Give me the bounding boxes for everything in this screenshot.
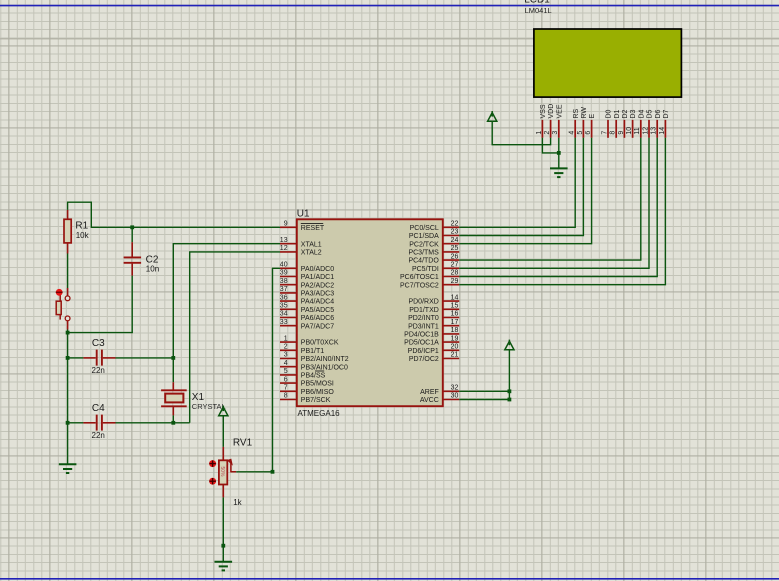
svg-text:PA3/ADC3: PA3/ADC3	[301, 291, 334, 298]
wire R1 top to RESET pin 9	[68, 202, 280, 227]
svg-text:35: 35	[280, 303, 288, 310]
svg-text:R1: R1	[75, 220, 88, 231]
microcontroller U1 ATMEGA16 body	[297, 219, 443, 406]
svg-text:50%: 50%	[219, 467, 225, 478]
LCD pin 13 stub (D6)	[656, 120, 658, 138]
LCD pin 12 stub (D5)	[648, 120, 650, 138]
svg-text:14: 14	[659, 127, 666, 135]
capacitor C2 top pin	[131, 242, 133, 256]
pin 30 stub (AVCC)	[443, 399, 459, 401]
resistor R1 body	[64, 219, 71, 243]
ground symbol below RV1	[215, 561, 233, 563]
pin 37 stub (PA3/ADC3)	[280, 292, 297, 294]
LCD pin 5 stub (RW)	[582, 120, 584, 138]
svg-text:PC7/TOSC2: PC7/TOSC2	[400, 282, 439, 289]
svg-text:38: 38	[280, 278, 288, 285]
svg-text:ATMEGA16: ATMEGA16	[298, 409, 341, 418]
svg-text:D4: D4	[638, 109, 645, 118]
pin 21 stub (PD7/OC2)	[443, 358, 459, 360]
svg-text:PA6/ADC6: PA6/ADC6	[301, 315, 334, 322]
svg-text:PC4/TDO: PC4/TDO	[408, 258, 439, 265]
svg-text:1: 1	[536, 131, 543, 135]
wire crystal top	[172, 358, 174, 382]
button top pin	[67, 288, 69, 296]
svg-text:10n: 10n	[146, 265, 159, 274]
svg-text:D2: D2	[622, 109, 629, 118]
pin 34 stub (PA6/ADC6)	[280, 317, 297, 319]
svg-text:14: 14	[451, 294, 459, 301]
svg-text:6: 6	[284, 376, 288, 383]
pin 28 stub (PC6/TOSC1)	[443, 276, 459, 278]
wire power to RV1 top	[222, 416, 224, 447]
wire VSS to ground net	[542, 138, 558, 153]
pin 35 stub (PA5/ADC5)	[280, 308, 297, 310]
svg-text:PA7/ADC7: PA7/ADC7	[301, 323, 334, 330]
button top contact circle	[65, 296, 70, 301]
svg-text:PA0/ADC0: PA0/ADC0	[301, 266, 334, 273]
svg-text:15: 15	[451, 303, 459, 310]
wire R1 bottom to button	[67, 254, 69, 289]
wire RESET net down to C2	[131, 227, 133, 242]
svg-text:29: 29	[451, 278, 459, 285]
svg-text:PB2/AIN0/INT2: PB2/AIN0/INT2	[301, 356, 349, 363]
svg-text:33: 33	[280, 319, 288, 326]
pin 9 stub (RESET)	[280, 226, 297, 228]
svg-text:16: 16	[451, 311, 459, 318]
pin 5 stub (PB4/SS)	[280, 374, 297, 376]
svg-text:C3: C3	[92, 338, 105, 349]
svg-text:25: 25	[451, 245, 459, 252]
svg-text:17: 17	[451, 319, 459, 326]
svg-text:11: 11	[634, 127, 641, 134]
pin 3 stub (PB2/AIN0/INT2)	[280, 358, 297, 360]
LCD pin 7 stub (D0)	[607, 120, 609, 138]
node junction C4 left	[66, 421, 70, 425]
svg-text:40: 40	[280, 262, 288, 269]
pin 16 stub (PD2/INT0)	[443, 317, 459, 319]
svg-text:PA4/ADC4: PA4/ADC4	[301, 299, 334, 306]
ground symbol left	[59, 463, 77, 465]
svg-text:24: 24	[451, 237, 459, 244]
svg-text:D5: D5	[647, 109, 654, 118]
pin 24 stub (PC2/TCK)	[443, 243, 459, 245]
svg-text:26: 26	[451, 253, 459, 260]
wire VDD to power	[492, 121, 550, 145]
svg-text:20: 20	[451, 344, 459, 351]
svg-text:12: 12	[280, 245, 288, 252]
pin 32 stub (AREF)	[443, 390, 459, 392]
power symbol VDD	[488, 113, 497, 122]
pin 7 stub (PB6/MISO)	[280, 390, 297, 392]
svg-text:PD2/INT0: PD2/INT0	[408, 315, 439, 322]
pin 2 stub (PB1/T1)	[280, 349, 297, 351]
svg-text:VSS: VSS	[540, 104, 547, 118]
svg-text:13: 13	[280, 237, 288, 244]
RV1 wiper arrow	[228, 459, 233, 464]
crystal X1 top pin	[172, 382, 174, 390]
LCD pin 8 stub (D1)	[615, 120, 617, 138]
svg-text:PD1/TXD: PD1/TXD	[409, 307, 439, 314]
pin 13 stub (XTAL1)	[280, 243, 297, 245]
wire C3 right to crystal top node	[116, 357, 174, 359]
pin 18 stub (PD4/OC1B)	[443, 333, 459, 335]
node junction at button bottom	[66, 331, 70, 335]
svg-text:D7: D7	[663, 109, 670, 118]
wire C4 left	[68, 422, 84, 424]
RV1 red adjust dot upper	[209, 460, 216, 467]
svg-text:U1: U1	[297, 209, 310, 220]
wire C2 bottom down	[131, 276, 133, 333]
LCD pin 2 stub (VDD)	[550, 120, 552, 138]
svg-text:AREF: AREF	[420, 389, 439, 396]
svg-text:PB0/T0XCK: PB0/T0XCK	[301, 340, 339, 347]
svg-text:2: 2	[544, 131, 551, 135]
wire RV1 wiper to PA0	[236, 471, 272, 473]
svg-text:CRYSTAL: CRYSTAL	[192, 402, 226, 411]
pin 27 stub (PC5/TDI)	[443, 267, 459, 269]
wire C3 left	[68, 357, 84, 359]
LCD pin 3 stub (VEE)	[558, 120, 560, 138]
svg-text:13: 13	[651, 127, 658, 135]
power symbol above RV1	[219, 407, 228, 416]
capacitor C3 left pin	[83, 357, 95, 359]
node junction crystal top	[171, 356, 175, 360]
pin 29 stub (PC7/TOSC2)	[443, 284, 459, 286]
svg-text:7: 7	[601, 131, 608, 135]
button bottom pin	[67, 321, 69, 330]
wire LCD RW to PC1/SDA pin 23	[459, 138, 583, 236]
svg-text:4: 4	[284, 360, 288, 367]
svg-text:PC6/TOSC1: PC6/TOSC1	[400, 274, 439, 281]
svg-text:PD4/OC1B: PD4/OC1B	[404, 332, 439, 339]
pin 22 stub (PC0/SCL)	[443, 226, 459, 228]
wire wiper vertical up to pin 40	[273, 268, 281, 472]
sheet border top blue line	[0, 5, 779, 7]
wire LCD D6 to PC6/TOSC1 pin 28	[459, 138, 657, 277]
pin 26 stub (PC4/TDO)	[443, 259, 459, 261]
svg-text:23: 23	[451, 229, 459, 236]
svg-text:18: 18	[451, 327, 459, 334]
svg-text:PB6/MISO: PB6/MISO	[301, 389, 335, 396]
pin 19 stub (PD5/OC1A)	[443, 341, 459, 343]
pin 40 stub (PA0/ADC0)	[280, 267, 297, 269]
pin 12 stub (XTAL2)	[280, 251, 297, 253]
svg-text:1k: 1k	[233, 498, 242, 507]
svg-text:PA5/ADC5: PA5/ADC5	[301, 307, 334, 314]
svg-text:30: 30	[451, 393, 459, 400]
svg-text:D0: D0	[606, 109, 613, 118]
pin 38 stub (PA2/ADC2)	[280, 284, 297, 286]
svg-text:PD3/INT1: PD3/INT1	[408, 323, 439, 330]
svg-text:PD0/RXD: PD0/RXD	[408, 299, 438, 306]
svg-text:E: E	[589, 114, 596, 119]
svg-text:32: 32	[451, 385, 459, 392]
svg-text:9: 9	[618, 131, 625, 135]
wire power rail vertical	[508, 350, 510, 400]
pin 23 stub (PC1/SDA)	[443, 235, 459, 237]
node junction AVCC	[508, 398, 512, 402]
svg-text:36: 36	[280, 294, 288, 301]
crystal X1 body	[165, 394, 183, 403]
svg-text:27: 27	[451, 262, 459, 269]
node junction AREF	[508, 389, 512, 393]
svg-text:4: 4	[569, 131, 576, 135]
svg-text:PD7/OC2: PD7/OC2	[409, 356, 439, 363]
svg-text:9: 9	[284, 221, 288, 228]
svg-text:D3: D3	[630, 109, 637, 118]
svg-text:PB7/SCK: PB7/SCK	[301, 397, 331, 404]
svg-text:LM041L: LM041L	[525, 6, 552, 15]
crystal X1 bottom plate	[161, 405, 187, 407]
svg-text:RV1: RV1	[233, 437, 253, 448]
svg-text:PC3/TMS: PC3/TMS	[408, 250, 439, 257]
svg-text:PD6/ICP1: PD6/ICP1	[408, 348, 439, 355]
potentiometer RV1 body	[219, 460, 227, 484]
pin 15 stub (PD1/TXD)	[443, 308, 459, 310]
wire LCD D4 to PC4/TDO pin 26	[459, 138, 641, 260]
svg-text:6: 6	[585, 131, 592, 135]
svg-text:LCD1: LCD1	[524, 0, 550, 6]
svg-text:PA1/ADC1: PA1/ADC1	[301, 274, 334, 281]
svg-text:PB1/T1: PB1/T1	[301, 348, 324, 355]
LCD pin 9 stub (D2)	[623, 120, 625, 138]
svg-text:12: 12	[642, 127, 649, 135]
svg-text:5: 5	[577, 131, 584, 135]
svg-text:PC1/SDA: PC1/SDA	[409, 233, 439, 240]
svg-text:PC2/TCK: PC2/TCK	[409, 241, 439, 248]
RV1 top pin	[222, 447, 224, 460]
svg-text:7: 7	[284, 385, 288, 392]
wire C4 right to XTAL2 vertical	[116, 422, 190, 424]
capacitor C3 right pin	[103, 357, 116, 359]
node junction crystal bottom	[171, 421, 175, 425]
svg-text:39: 39	[280, 270, 288, 277]
svg-text:PC5/TDI: PC5/TDI	[412, 266, 439, 273]
sheet border bottom blue line	[0, 578, 779, 580]
svg-text:1: 1	[284, 335, 288, 342]
capacitor C2 bottom pin	[131, 264, 133, 276]
pin 33 stub (PA7/ADC7)	[280, 325, 297, 327]
LCD pin 14 stub (D7)	[664, 120, 666, 138]
R1 bottom pin	[67, 243, 69, 254]
capacitor C4 left pin	[83, 422, 95, 424]
svg-text:RW: RW	[581, 107, 588, 119]
svg-text:22: 22	[451, 221, 459, 228]
svg-text:PC0/SCL: PC0/SCL	[410, 225, 439, 232]
node junction wiper	[271, 470, 275, 474]
capacitor C4 right pin	[103, 422, 116, 424]
svg-text:10: 10	[626, 127, 633, 135]
svg-text:VEE: VEE	[556, 104, 563, 118]
wire button bottom to junction	[67, 330, 69, 333]
svg-text:28: 28	[451, 270, 459, 277]
svg-text:PA2/ADC2: PA2/ADC2	[301, 282, 334, 289]
RV1 red adjust dot lower	[209, 478, 216, 485]
node junction C3 left	[66, 356, 70, 360]
LCD pin 6 stub (E)	[591, 120, 593, 138]
svg-text:34: 34	[280, 311, 288, 318]
pin 4 stub (PB3/AIN1/OC0)	[280, 366, 297, 368]
pin 8 stub (PB7/SCK)	[280, 399, 297, 401]
pin 36 stub (PA4/ADC4)	[280, 300, 297, 302]
wire VEE down to ground	[558, 138, 560, 169]
pin 17 stub (PD3/INT1)	[443, 325, 459, 327]
crystal X1 top plate	[161, 389, 187, 391]
capacitor C2 plates	[124, 256, 142, 258]
wire LCD D7 to PC7/TOSC2 pin 29	[459, 138, 665, 285]
pin 6 stub (PB5/MOSI)	[280, 382, 297, 384]
svg-text:10k: 10k	[76, 231, 90, 240]
wire RV1 bottom to ground	[222, 497, 224, 561]
capacitor C3 plates	[96, 350, 98, 366]
pin 1 stub (PB0/T0XCK)	[280, 341, 297, 343]
button cap rectangle	[56, 301, 61, 314]
crystal X1 bottom pin	[172, 406, 174, 415]
node junction reset/C2	[130, 225, 134, 229]
svg-text:22n: 22n	[92, 431, 105, 440]
pin 20 stub (PD6/ICP1)	[443, 349, 459, 351]
wire LCD RS to PC0/SCL pin 22	[459, 138, 575, 228]
svg-text:8: 8	[610, 131, 617, 135]
node junction VEE/VSS	[557, 151, 561, 155]
power symbol AVCC	[505, 341, 514, 350]
svg-text:VDD: VDD	[548, 104, 555, 119]
button red actuator dot	[56, 289, 63, 296]
svg-text:C4: C4	[92, 403, 105, 414]
button actuator rod	[59, 294, 61, 320]
svg-text:D1: D1	[614, 109, 621, 118]
node junction on RV1 ground wire	[221, 544, 225, 548]
svg-text:21: 21	[451, 352, 459, 359]
wire LCD E to PC2/TCK pin 24	[459, 138, 591, 244]
svg-text:RS: RS	[573, 108, 580, 118]
svg-text:3: 3	[552, 131, 559, 135]
ground symbol LCD	[550, 167, 568, 169]
LCD pin 1 stub (VSS)	[541, 120, 543, 138]
capacitor C4 plates	[96, 415, 98, 431]
svg-text:PB5/MOSI: PB5/MOSI	[301, 381, 334, 388]
svg-text:5: 5	[284, 368, 288, 375]
svg-text:RESET: RESET	[301, 225, 325, 232]
LCD pin 11 stub (D4)	[640, 120, 642, 138]
svg-text:AVCC: AVCC	[420, 397, 439, 404]
svg-text:PD5/OC1A: PD5/OC1A	[404, 340, 439, 347]
svg-text:XTAL2: XTAL2	[301, 250, 322, 257]
LCD pin 10 stub (D3)	[632, 120, 634, 138]
svg-text:2: 2	[284, 344, 288, 351]
svg-text:PB3/AIN1/OC0: PB3/AIN1/OC0	[301, 364, 348, 371]
svg-text:PB4/SS: PB4/SS	[301, 373, 326, 380]
LCD pin 4 stub (RS)	[574, 120, 576, 138]
wire AREF to power rail	[459, 390, 509, 392]
pin 39 stub (PA1/ADC1)	[280, 276, 297, 278]
wire AVCC to power rail	[459, 399, 509, 401]
svg-text:37: 37	[280, 286, 288, 293]
LCD LM041L screen	[534, 29, 682, 97]
pin 25 stub (PC3/TMS)	[443, 251, 459, 253]
svg-text:19: 19	[451, 335, 459, 342]
wire XTAL2 pin 12 to crystal bottom net	[190, 252, 280, 423]
pin 14 stub (PD0/RXD)	[443, 300, 459, 302]
wire C2 bottom to button net	[68, 332, 133, 334]
wire LCD D5 to PC5/TDI pin 27	[459, 138, 649, 268]
svg-text:XTAL1: XTAL1	[301, 241, 322, 248]
svg-text:8: 8	[284, 393, 288, 400]
RV1 bottom pin	[222, 485, 224, 498]
button bottom contact circle	[65, 316, 70, 321]
R1 top pin	[67, 210, 69, 219]
svg-text:3: 3	[284, 352, 288, 359]
wire left net down to ground	[67, 333, 69, 465]
wire crystal bottom	[172, 415, 174, 422]
svg-text:D6: D6	[655, 109, 662, 118]
wire XTAL1 pin 13 to crystal top node	[173, 244, 280, 358]
svg-text:22n: 22n	[92, 366, 105, 375]
